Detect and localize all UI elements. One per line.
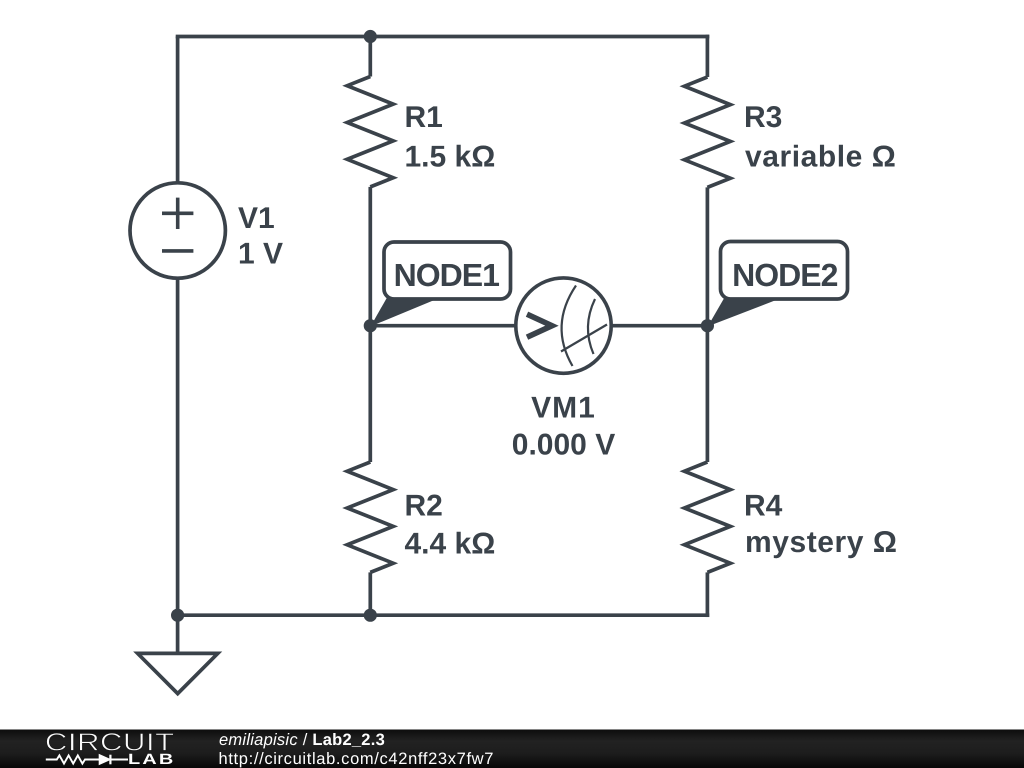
svg-text:VM1: VM1 — [531, 392, 596, 425]
svg-text:0.000 V: 0.000 V — [512, 429, 615, 462]
svg-text:mystery Ω: mystery Ω — [745, 526, 897, 559]
wire: V1 top lead to top rail — [176, 37, 180, 184]
svg-text:1 V: 1 V — [238, 238, 283, 271]
wire: NODE2 down to R4 — [706, 326, 710, 462]
wire: ground stub — [176, 615, 180, 653]
svg-text:NODE2: NODE2 — [732, 257, 837, 293]
wire: V1 bottom lead — [176, 278, 180, 615]
wire: R1 top stub — [368, 37, 372, 77]
node NODE2 callout box — [721, 242, 848, 300]
svg-text:R2: R2 — [405, 490, 443, 523]
resistor R2 zigzag — [347, 462, 393, 572]
VM1 diagonal needle — [561, 325, 607, 352]
logo LAB wordmark — [129, 754, 172, 764]
svg-text:V1: V1 — [238, 202, 275, 235]
VM1 probe chevron — [527, 314, 552, 337]
svg-text:R1: R1 — [405, 101, 443, 134]
svg-text:R3: R3 — [744, 101, 782, 134]
svg-text:4.4 kΩ: 4.4 kΩ — [405, 528, 496, 561]
voltmeter VM1 body — [516, 278, 611, 373]
wire: R4 bottom stub — [706, 572, 710, 617]
V1 plus sign — [162, 198, 193, 229]
node NODE2 junction dot — [701, 319, 714, 332]
node NODE2 callout tail — [708, 298, 780, 327]
wire: VM1 right terminal to NODE2 — [611, 324, 708, 328]
svg-text:emiliapisic / Lab2_2.3: emiliapisic / Lab2_2.3 — [219, 731, 385, 749]
wire: R3 bottom to NODE2 — [706, 187, 710, 325]
resistor R4 zigzag — [684, 462, 730, 572]
wire: bottom rail — [178, 613, 710, 617]
wire: NODE1 to VM1 left terminal — [370, 324, 516, 328]
voltage source V1 body — [130, 183, 225, 278]
svg-text:variable Ω: variable Ω — [745, 141, 896, 174]
wire: R2 bottom stub — [368, 572, 372, 615]
node NODE1 callout tail — [371, 298, 438, 327]
wire: top rail — [176, 35, 710, 39]
logo diode triangle — [100, 755, 110, 764]
node NODE1 junction dot — [364, 319, 377, 332]
V1 minus sign — [162, 249, 193, 253]
junction dot: bottom rail / V1 — [171, 609, 184, 622]
junction dot: top rail / R1 — [364, 30, 377, 43]
wire: R1 bottom to NODE1 — [368, 187, 372, 326]
resistor R3 zigzag — [684, 77, 730, 187]
footer bar — [0, 730, 1024, 768]
svg-text:R4: R4 — [744, 490, 783, 523]
VM1 large arc — [562, 286, 576, 367]
resistor R1 zigzag — [347, 77, 393, 187]
wire: NODE1 down to R2 — [368, 326, 372, 462]
VM1 small arc — [588, 299, 595, 354]
svg-text:1.5 kΩ: 1.5 kΩ — [405, 141, 496, 174]
svg-text:NODE1: NODE1 — [394, 257, 499, 293]
node NODE1 callout box — [384, 242, 511, 299]
logo CIRCUIT wordmark — [47, 733, 174, 751]
logo resistor-diode symbol — [46, 755, 128, 763]
junction dot: bottom rail / R2 — [364, 609, 377, 622]
ground symbol — [138, 653, 218, 693]
wire: R3 top stub — [706, 35, 710, 77]
svg-text:http://circuitlab.com/c42nff23: http://circuitlab.com/c42nff23x7fw7 — [219, 750, 495, 768]
